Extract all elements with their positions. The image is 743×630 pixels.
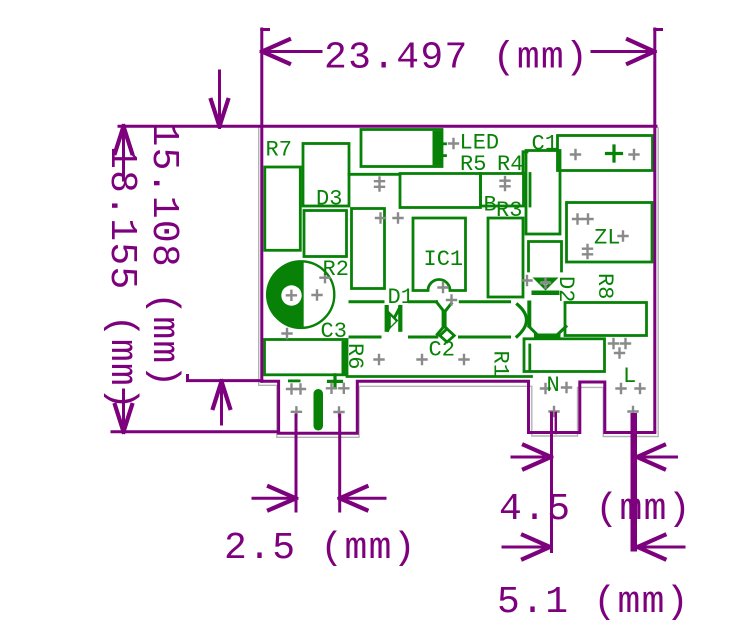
diode D2 triangle	[533, 278, 559, 291]
svg-text:23.497 (mm): 23.497 (mm)	[324, 37, 589, 80]
diode D3 body lower	[304, 211, 347, 257]
LED pin tick 2	[442, 154, 446, 157]
wire net302 seg3	[460, 300, 509, 303]
pad C3 top	[321, 273, 330, 282]
LED pin tick 1	[442, 142, 446, 145]
svg-text:N: N	[547, 373, 560, 398]
svg-text:R7: R7	[266, 138, 292, 163]
LED polarity bar	[433, 131, 443, 166]
dim 15.108 bottom arrow	[220, 381, 223, 424]
pad R8 b	[621, 339, 630, 348]
ext line y380	[188, 376, 262, 381]
diode D3 body upper	[303, 144, 349, 207]
svg-text:C3: C3	[321, 319, 347, 344]
svg-text:C2: C2	[429, 338, 455, 363]
connector block top-right	[558, 136, 653, 171]
capacitor C3 fill half	[266, 261, 304, 328]
dim 18.155 top arrow	[122, 126, 125, 180]
pad tab1 a	[287, 385, 296, 394]
ext tick right top	[655, 28, 662, 31]
svg-text:B: B	[484, 193, 497, 218]
pad C3 bottom	[283, 329, 292, 338]
diode D2 frame	[529, 242, 562, 272]
dim 2.5 left arrow	[253, 497, 296, 500]
pad pin1	[292, 407, 301, 416]
transistor Q2	[517, 301, 566, 339]
dim 15.108 top arrow	[218, 71, 221, 126]
diode D1 cathode bar	[398, 305, 402, 332]
pad R8 c	[615, 349, 624, 358]
wire net337 seg3	[460, 336, 510, 339]
resistor R8 body	[565, 303, 647, 336]
capacitor C1 pin line	[529, 174, 532, 207]
resistor R1 pin line	[528, 345, 531, 371]
diode D1 anode bar	[385, 305, 389, 332]
svg-text:D2: D2	[553, 276, 578, 302]
text layer	[266, 131, 637, 399]
pad LED	[449, 139, 458, 148]
pad C2 b	[460, 355, 469, 364]
svg-text:R8: R8	[592, 273, 617, 299]
svg-text:4.5 (mm): 4.5 (mm)	[499, 488, 692, 531]
mounting slot pad	[314, 389, 324, 431]
resistor R3 body	[488, 218, 523, 297]
svg-text:2.5 (mm): 2.5 (mm)	[224, 527, 417, 570]
pad tab1 d	[339, 384, 348, 393]
board bottom profile	[262, 381, 655, 433]
pad ZL 3	[619, 232, 628, 241]
svg-text:C1: C1	[532, 132, 558, 157]
ext pin2 line	[338, 415, 341, 511]
pad L pin	[629, 407, 638, 416]
plus mark green in connector	[607, 146, 622, 161]
pad ZL 4 pin	[583, 245, 592, 258]
resistor R6 body	[265, 340, 348, 375]
dim 4.5 left arrow	[512, 456, 551, 459]
pad N left	[541, 384, 550, 393]
resistor R5 body	[400, 174, 481, 208]
board outline secondary layer (gray)	[259, 128, 659, 438]
pad R6 a	[375, 355, 384, 364]
capacitor C2 diamond	[440, 329, 455, 342]
wire silk y174	[349, 173, 400, 176]
svg-text:R2: R2	[323, 257, 349, 282]
svg-text:R3: R3	[496, 198, 522, 223]
pad C3 center	[287, 291, 296, 300]
dim 23.497 left arrow	[262, 50, 321, 53]
svg-text:R1: R1	[488, 351, 513, 377]
pad D3 pin	[375, 178, 384, 191]
wire net337 seg1	[350, 336, 380, 339]
capacitor C3 outline	[268, 261, 335, 328]
svg-text:15.108 (mm): 15.108 (mm)	[142, 124, 185, 389]
svg-text:D3: D3	[316, 187, 342, 212]
pad pin2	[335, 408, 344, 417]
svg-text:D1: D1	[388, 285, 414, 310]
svg-text:IC1: IC1	[424, 247, 464, 272]
pad IC1	[439, 283, 448, 292]
svg-text:L: L	[623, 364, 636, 389]
capacitor C1 body	[526, 151, 560, 235]
dim 5.1 right arrow	[638, 546, 685, 549]
pad N pin	[550, 407, 559, 416]
pad D2 a	[523, 276, 532, 285]
capacitor C3 hole	[281, 285, 301, 305]
pad L left	[617, 384, 626, 393]
IC U1 body with notch	[413, 218, 466, 291]
wire gray left edge	[259, 128, 659, 438]
ext L pin line	[631, 413, 638, 552]
ext N pin line b	[555, 413, 557, 433]
dim 5.1 left arrow	[503, 546, 550, 549]
pad R2 a	[376, 214, 385, 223]
wire silk bottom	[347, 375, 532, 378]
pad R2 b	[394, 214, 403, 223]
diode D2 cathode bar	[532, 291, 560, 296]
ext N pin line	[550, 413, 553, 552]
purple dimension/outline layer	[112, 29, 684, 559]
pad C2 a	[418, 355, 427, 364]
resistor R1 body	[524, 339, 605, 372]
diode D1 diagonal	[388, 307, 401, 331]
LED body	[361, 130, 442, 167]
svg-text:R6: R6	[342, 343, 367, 369]
dim 2.5 right arrow	[340, 497, 385, 500]
pad conn 1	[571, 150, 580, 159]
pad ZL 2	[584, 215, 593, 224]
varistor ZL body	[567, 203, 653, 263]
dim 18.155 bottom arrow	[122, 390, 125, 432]
svg-text:5.1 (mm): 5.1 (mm)	[497, 581, 690, 624]
board left edge + ext	[260, 29, 263, 381]
pad ZL 1	[573, 215, 582, 224]
svg-text:ZL: ZL	[594, 226, 620, 251]
pad C3 right	[313, 291, 322, 300]
dim 23.497 right arrow	[592, 50, 655, 53]
pad N right	[562, 383, 571, 392]
board right edge + ext	[653, 29, 656, 431]
pad R8 a	[609, 339, 618, 348]
pad D2 b	[541, 279, 550, 288]
pad tab1 b	[296, 385, 305, 394]
dim 4.5 right arrow	[637, 456, 677, 459]
resistor R7	[265, 167, 301, 250]
wire net302 seg2	[410, 300, 437, 303]
ext line y431	[112, 430, 278, 433]
pad L right	[636, 384, 645, 393]
wire net302 seg1	[350, 300, 383, 303]
ext pin1 line	[295, 415, 298, 511]
svg-text:R5: R5	[460, 152, 486, 177]
diode D1 triangle	[388, 311, 398, 331]
capacitor C1 stub	[523, 152, 527, 174]
svg-text:18.155 (mm): 18.155 (mm)	[100, 146, 143, 411]
pad plus mark	[329, 375, 342, 388]
pad minus mark	[288, 380, 301, 383]
gray pads layer	[283, 139, 645, 417]
svg-text:R4: R4	[497, 152, 523, 177]
resistor R4 body	[481, 174, 524, 207]
resistor R6 end bar	[342, 341, 348, 374]
pad conn 2	[630, 150, 639, 159]
ext tick left top	[262, 28, 269, 31]
board top edge	[119, 125, 656, 128]
wire net337 seg2	[410, 336, 437, 339]
pad tab1 c	[327, 384, 336, 393]
transistor Q1	[437, 302, 452, 335]
resistor R2 body	[352, 209, 385, 289]
pad R4 pin	[501, 177, 510, 190]
pad Q1	[447, 296, 456, 305]
